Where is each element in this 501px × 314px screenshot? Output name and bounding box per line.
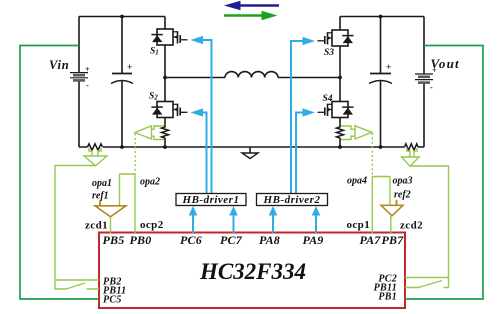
svg-text:S3: S3 [324,48,334,58]
wire S2 source to shunt [164,118,166,147]
svg-text:zcd1: zcd1 [85,220,108,232]
svg-text:PB5: PB5 [103,233,125,247]
MCU top pin labels [103,233,405,247]
svg-text:-: - [86,81,89,90]
svg-text:S2: S2 [149,92,158,102]
wire top rail right [340,16,424,18]
wire output capacitor branch [380,17,382,148]
battery Vout load [415,74,433,83]
wire S3-S4 midpoint [339,46,341,102]
op-amp S2 leg current sense [135,126,164,140]
wire gate drive S3 (cyan) [291,41,303,194]
op-amp input current sense (bottom left) [84,148,107,166]
wire switch branch PB11 right [405,278,449,288]
wire opa3/opa4 junction [372,177,390,206]
svg-text:PB1: PB1 [378,292,397,303]
wire ref1 stub [99,200,101,206]
node dots [120,15,382,149]
wire input capacitor branch [121,17,123,148]
comparator zcd2 [381,205,403,216]
wire inductor node right [278,77,340,79]
wire opa output to PC2/PB11 [405,166,449,278]
resistor Rsh1 (input shunt) [88,144,103,150]
svg-text:+: + [127,63,132,73]
wire PWM PC7 arrow [229,206,238,233]
inductor L1 [225,72,278,78]
wire ref2 stub [396,200,398,206]
svg-text:PA9: PA9 [302,233,323,247]
svg-text:opa3: opa3 [393,176,413,187]
wire right rail [423,17,425,148]
svg-text:ref1: ref1 [92,191,109,202]
svg-text:PB7: PB7 [382,233,405,247]
wire S4 source to shunt [339,118,341,147]
battery Vin source [70,73,88,81]
microcontroller U1 HC32F334 box [99,233,405,309]
svg-text:zcd2: zcd2 [400,220,423,232]
svg-text:HB-driver2: HB-driver2 [263,194,321,206]
transistor S3 [318,30,354,46]
svg-text:PC5: PC5 [103,295,122,306]
wire ocp2 to PB0 [134,174,136,233]
svg-text:PA7: PA7 [359,233,381,247]
capacitor C1 [112,73,132,75]
wire opa1/opa2 junction [120,174,136,206]
wire inductor node left [165,77,225,79]
capacitor C2 [370,73,391,75]
svg-text:+: + [386,63,391,73]
wire S3 drain stub [339,17,341,31]
svg-text:PC7: PC7 [220,233,243,247]
wire gate drive S4 (cyan) [296,113,303,195]
wire S1 drain stub [164,17,166,30]
svg-text:+: + [85,65,90,74]
svg-text:Vin: Vin [49,58,69,72]
wire opa2 dotted output [134,134,136,175]
wire PWM PA9 arrow [312,206,321,233]
MCU left pin labels [103,277,126,306]
svg-text:PA8: PA8 [259,233,280,247]
svg-text:-: - [430,83,433,92]
wire PWM PC6 arrow [189,206,198,233]
transistor S1 [151,29,187,45]
wire left rail [78,17,80,148]
svg-text:opa2: opa2 [140,177,160,188]
wire opa1 output to PB2/PB11 [55,166,99,281]
svg-text:opa1: opa1 [92,178,112,189]
wire top rail left [79,16,165,18]
wire gate drive S2 (cyan) [203,113,207,195]
resistor Rsh4 (output shunt) [405,144,419,150]
ground [249,147,251,153]
wire zcd1 comparator output to PB5 [110,217,112,233]
op-amp output current sense (bottom right) [402,148,420,167]
svg-text:ref2: ref2 [394,190,411,201]
svg-text:ocp2: ocp2 [140,219,164,231]
wire Vout voltage sense to PB1 (dark green) [405,46,483,300]
op-amp S4 leg current sense [341,126,372,140]
wire bottom rail [79,146,424,148]
svg-text:ocp1: ocp1 [347,219,371,231]
MCU right pin labels [374,274,397,303]
HB-driver1 box [176,194,246,206]
svg-text:S1: S1 [150,47,159,57]
wire ocp1 to PA7 [371,177,373,234]
wire opa3 dotted output [371,133,373,177]
resistor Rsh3 (S4 leg shunt) [337,127,344,138]
wire switch branch PB11 left [55,280,99,289]
wire gate drive S1 (cyan) [203,40,212,194]
resistor Rsh2 (S2 leg shunt) [162,127,169,138]
svg-text:PB0: PB0 [130,233,152,247]
svg-text:HB-driver1: HB-driver1 [182,194,240,206]
svg-text:Vout: Vout [431,56,460,71]
transistor S4 [318,102,354,118]
arrow (forward power flow, green) [224,11,278,20]
comparator zcd1 [95,206,126,217]
svg-text:opa4: opa4 [347,176,367,187]
wire zcd2 comparator output to PB7 [390,216,392,233]
svg-text:PC6: PC6 [180,233,202,247]
wire S1-S2 midpoint [164,45,166,102]
svg-text:S4: S4 [323,94,333,104]
wire Vin voltage sense to PC5 (dark green) [20,46,99,300]
HB-driver2 box [257,194,328,206]
svg-text:HC32F334: HC32F334 [199,259,306,284]
wire PWM PA8 arrow [269,206,278,233]
arrow (reverse power flow, blue) [224,1,279,10]
transistor S2 [151,102,187,118]
